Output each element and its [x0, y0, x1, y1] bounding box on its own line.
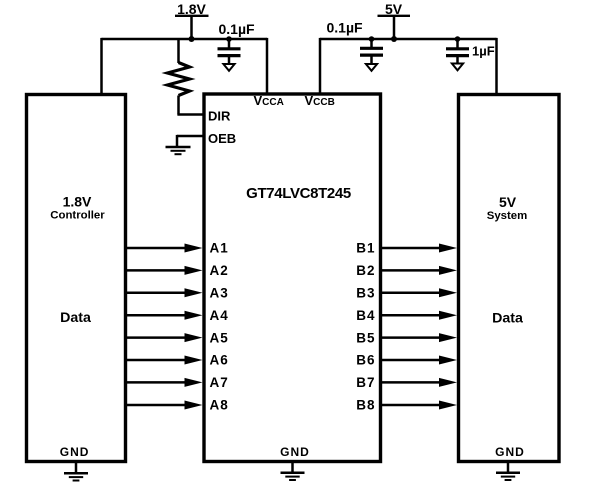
ground arrow (C1) [223, 64, 234, 71]
ground (controller) [64, 463, 88, 481]
junction C3 [455, 36, 461, 42]
wire bus to VCCA pin [266, 38, 269, 94]
net label 1.8V [175, 1, 209, 17]
svg-text:B3: B3 [356, 286, 375, 301]
block: 5V system box [459, 95, 560, 462]
svg-text:OEB: OEB [208, 131, 236, 146]
wire A3 data line [126, 288, 203, 297]
svg-text:B7: B7 [356, 375, 375, 390]
wire A5 data line [126, 333, 203, 342]
svg-text:B1: B1 [356, 241, 375, 256]
wire OEB to ground [177, 135, 203, 147]
svg-text:0.1µF: 0.1µF [327, 20, 364, 36]
wire A7 data line [126, 378, 203, 387]
svg-text:A4: A4 [210, 308, 229, 323]
junction C2 [369, 36, 375, 42]
svg-text:Data: Data [60, 310, 91, 326]
capacitor C2 0.1uF [360, 39, 383, 64]
ground arrow (C3) [452, 64, 463, 71]
svg-text:B2: B2 [356, 263, 375, 278]
wire bus to 5V system top [495, 38, 498, 95]
svg-text:DIR: DIR [208, 109, 231, 124]
wire 5V bus [320, 38, 497, 41]
ground (OEB) [166, 147, 191, 154]
capacitor C1 0.1uF [218, 39, 241, 64]
ground (U1) [281, 463, 305, 480]
svg-text:A1: A1 [210, 241, 229, 256]
wire A4 data line [126, 311, 203, 320]
svg-text:GND: GND [495, 445, 525, 459]
svg-text:5V: 5V [499, 194, 517, 210]
wire 5V label to bus [393, 16, 396, 39]
svg-text:1µF: 1µF [472, 44, 495, 59]
wire B1 data line [381, 244, 457, 253]
svg-text:A8: A8 [210, 398, 229, 413]
svg-text:A6: A6 [210, 353, 229, 368]
svg-text:B8: B8 [356, 398, 375, 413]
junction 5V supply [391, 36, 397, 42]
ground (system) [496, 463, 520, 480]
wire B3 data line [381, 288, 457, 297]
wire A1 data line [126, 244, 203, 253]
wire B7 data line [381, 378, 457, 387]
svg-text:GND: GND [280, 445, 310, 459]
svg-text:GT74LVC8T245: GT74LVC8T245 [246, 185, 351, 202]
wire resistor to DIR pin [177, 113, 203, 116]
svg-text:B4: B4 [356, 308, 375, 323]
svg-text:Data: Data [492, 310, 523, 326]
wire A6 data line [126, 356, 203, 365]
wire A8 data line [126, 401, 203, 410]
resistor R1 DIR pull-up [168, 39, 190, 115]
svg-text:5V: 5V [385, 1, 403, 17]
svg-text:B5: B5 [356, 330, 375, 345]
wire B8 data line [381, 401, 457, 410]
wire bus to controller top [100, 38, 103, 94]
svg-text:0.1µF: 0.1µF [219, 21, 256, 37]
wire 1.8V label to bus [190, 16, 193, 39]
wire A2 data line [126, 266, 203, 275]
IC U1 GT74LVC8T245 box [204, 94, 381, 462]
svg-text:1.8V: 1.8V [63, 194, 92, 210]
wire B5 data line [381, 333, 457, 342]
junction 1.8V supply [189, 36, 195, 42]
svg-text:GND: GND [60, 445, 90, 459]
svg-text:System: System [487, 210, 528, 222]
wire B6 data line [381, 356, 457, 365]
net label 5V [378, 1, 411, 17]
svg-text:A5: A5 [210, 330, 229, 345]
svg-text:Controller: Controller [50, 210, 105, 222]
svg-text:1.8V: 1.8V [177, 1, 206, 17]
wire B4 data line [381, 311, 457, 320]
capacitor C3 1uF [446, 39, 469, 64]
label 1.8V Controller [50, 194, 105, 222]
block: 1.8V controller box [27, 95, 126, 462]
wire 1.8V bus [102, 38, 268, 41]
svg-text:A2: A2 [210, 263, 229, 278]
svg-text:A7: A7 [210, 375, 229, 390]
junction C1 [226, 36, 232, 42]
svg-text:B6: B6 [356, 353, 375, 368]
label 5V System [487, 194, 528, 222]
wire B2 data line [381, 266, 457, 275]
svg-text:A3: A3 [210, 286, 229, 301]
wire bus to VCCB pin [319, 38, 322, 94]
ground arrow (C2) [366, 64, 377, 71]
